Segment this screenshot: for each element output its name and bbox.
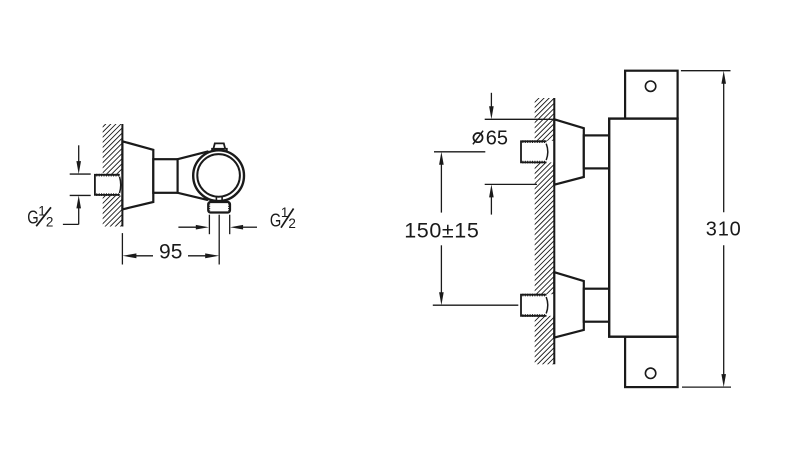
150 dim top extension line (top inlet center) — [434, 151, 485, 153]
310 dim bottom extension line — [682, 386, 731, 388]
svg-text:2: 2 — [46, 215, 54, 230]
svg-text:G: G — [270, 210, 281, 231]
svg-text:150±15: 150±15 — [404, 218, 479, 242]
angled arm to valve body — [178, 152, 216, 200]
G1/2 stub dimension: upper arrow (down) — [76, 145, 81, 174]
wall cutout band for inlet stub — [102, 174, 123, 196]
top tab on valve body — [212, 143, 227, 151]
150 dimension line with arrows — [439, 152, 444, 305]
G1/2 label (right) — [270, 205, 296, 231]
top neck — [584, 135, 609, 168]
bottom threaded inlet stub — [521, 295, 548, 316]
top plate hole — [645, 81, 655, 91]
wall face extension line for 95 dim — [121, 233, 123, 264]
svg-text:2: 2 — [288, 216, 296, 231]
bottom mounting plate — [625, 337, 678, 387]
dia 65 bottom extension line — [485, 183, 537, 185]
wall (hatched section, left view) — [103, 124, 123, 227]
wall cutout band for top inlet — [534, 141, 555, 163]
neck cylinder (left view) — [153, 159, 177, 193]
svg-text:95: 95 — [159, 240, 182, 263]
G1/2 label (left) — [27, 204, 53, 230]
top escutcheon cone — [554, 119, 584, 184]
bottom outlet nut G1/2 — [208, 202, 230, 213]
150 dim bottom extension line (bottom inlet center) — [433, 304, 519, 306]
threaded inlet stub (left view) — [95, 175, 122, 195]
dia 65 label — [473, 128, 508, 150]
mixer body (vertical bar) — [609, 119, 677, 337]
dia 65 top extension line — [485, 118, 555, 120]
top mounting plate — [625, 71, 678, 119]
top threaded inlet stub — [521, 141, 548, 162]
outlet center line — [218, 215, 220, 265]
dia 65 upper arrow (down) — [489, 93, 494, 120]
dimension 95 line and arrows — [122, 253, 219, 258]
310 dimension line with arrows — [721, 71, 726, 387]
wall cutout band for bottom inlet — [534, 294, 555, 316]
valve body inner circle — [197, 154, 240, 197]
dia 65 lower arrow (up) — [489, 184, 494, 214]
G1/2 stub dimension: lower arrow (up) and leg — [63, 195, 81, 224]
bottom neck — [584, 289, 609, 322]
wall (hatched section, right view) — [535, 98, 555, 364]
outlet extension lines below nut — [209, 215, 229, 235]
bottom escutcheon cone — [554, 272, 584, 337]
bottom port ticks between circles — [216, 196, 222, 201]
bottom plate hole — [645, 368, 655, 378]
310 dim top extension line — [681, 70, 731, 72]
valve body outer circle — [193, 150, 244, 201]
G1/2 stub dimension: extension lines (left) — [70, 174, 91, 195]
G1/2 outlet dimension arrows (below valve) — [178, 225, 257, 230]
svg-text:65: 65 — [486, 128, 508, 150]
escutcheon cone (left view) — [122, 141, 153, 209]
svg-text:310: 310 — [706, 219, 742, 241]
